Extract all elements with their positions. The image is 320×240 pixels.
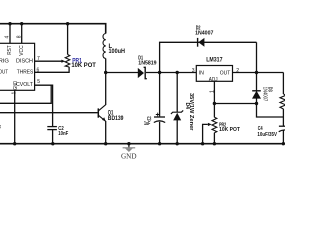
svg-text:1N5819: 1N5819 [138, 61, 156, 67]
wire PR2 bottom [213, 133, 215, 144]
zener diode D4 [173, 113, 181, 121]
transistor Q1 emitter arrow [102, 117, 106, 121]
ground symbol GND [123, 144, 136, 152]
potentiometer PR1 zigzag [65, 55, 70, 68]
svg-text:LM317: LM317 [206, 58, 223, 64]
svg-text:6: 6 [37, 68, 40, 74]
svg-text:100uH: 100uH [109, 49, 126, 55]
transistor Q1 BD139 [98, 105, 105, 122]
svg-text:1N4007: 1N4007 [262, 87, 268, 102]
wire C4 bottom lead [282, 130, 284, 144]
wire C2 bottom [52, 130, 54, 144]
svg-text:10K POT: 10K POT [219, 127, 240, 133]
svg-text:1: 1 [210, 90, 216, 93]
svg-text:BD139: BD139 [108, 116, 124, 122]
svg-text:7: 7 [37, 56, 40, 62]
wire D1 cathode to LM317 IN [146, 72, 196, 74]
svg-text:8: 8 [16, 35, 22, 38]
wire C4 top lead [282, 117, 284, 126]
inductor L coil [103, 34, 106, 59]
wire D2 output drop [256, 42, 258, 72]
wire LM317 OUT to right [233, 72, 284, 74]
potentiometer PR2 zigzag [212, 117, 217, 132]
svg-text:10nF: 10nF [58, 131, 68, 137]
svg-text:4: 4 [5, 36, 11, 39]
wire THRES pin6 to PR1 bottom [35, 67, 70, 72]
wire D3 anode down [256, 98, 258, 104]
svg-text:VCC: VCC [19, 45, 25, 56]
svg-text:THRES: THRES [17, 70, 34, 76]
diode D2 1N4007 [198, 38, 204, 47]
wire D3 top [256, 73, 258, 91]
wire C3 down [159, 73, 161, 117]
svg-text:10uF/35V: 10uF/35V [257, 132, 277, 138]
svg-text:1N4007: 1N4007 [195, 31, 213, 37]
wire D2 branch riser [160, 42, 257, 72]
resistor R at right edge [280, 94, 286, 109]
wire CVOLT to left net [0, 85, 51, 103]
wire ground rail [0, 143, 285, 145]
svg-text:CVOLT: CVOLT [16, 82, 33, 88]
svg-text:5: 5 [37, 79, 40, 85]
wire C3 bottom [159, 122, 161, 144]
capacitor C4 10uF/35V polarized [279, 126, 290, 132]
potentiometer PR2 wiper arrow [208, 123, 212, 126]
wire VCC pin8 [21, 24, 23, 44]
wire LM317 ADJ pin [213, 81, 215, 117]
wire CVOLT pin5 [35, 85, 53, 126]
wire Q1 emitter to ground rail [105, 121, 107, 144]
wire 555 OUT to Q1 base [0, 112, 98, 114]
capacitor C3 1uF polarized [154, 117, 165, 123]
svg-text:ADJ: ADJ [209, 77, 218, 83]
node junction dots [8, 22, 285, 145]
svg-text:2: 2 [236, 68, 239, 74]
wire D4 bottom [176, 120, 178, 144]
wire node to Q1 collector [105, 73, 107, 106]
svg-text:D4: D4 [184, 103, 190, 110]
svg-text:RST: RST [7, 45, 13, 55]
diode D3 1N4007 vertical [252, 91, 261, 99]
svg-text:GND: GND [121, 152, 137, 161]
wire DISCH pin7 [35, 60, 62, 62]
capacitor C2 10nF [47, 127, 57, 130]
wire ADJ net to C4 [257, 104, 284, 118]
svg-text:1uF: 1uF [144, 121, 150, 127]
svg-text:F: F [0, 126, 2, 132]
wire GND pin1 down [14, 90, 16, 143]
diode D1 1N5819 schottky [138, 68, 144, 78]
plus sign C3 [156, 113, 160, 117]
svg-text:35V/1W Zener: 35V/1W Zener [188, 93, 194, 131]
regulator U2 LM317 box [196, 66, 232, 82]
wire node to D1 anode [106, 72, 138, 74]
wire L to node [105, 59, 107, 73]
wire ADJ net horizontal [214, 103, 256, 105]
wire PR1 top [67, 24, 69, 55]
svg-text:IN: IN [199, 70, 205, 76]
svg-text:3: 3 [192, 68, 195, 74]
wire OUT corner down right edge [282, 73, 284, 95]
wire D4 top [176, 73, 178, 113]
wire resistor bottom to ADJ net [282, 109, 284, 117]
wire RST pin4 [9, 24, 11, 44]
wire PR2 wiper to ground [203, 124, 208, 143]
svg-text:OUT: OUT [220, 70, 231, 76]
wire top VCC rail [0, 24, 106, 34]
svg-text:10K POT: 10K POT [71, 63, 96, 69]
svg-text:OUT: OUT [0, 70, 8, 76]
potentiometer PR1 wiper arrow [61, 60, 65, 63]
svg-text:1: 1 [11, 92, 17, 95]
svg-text:DISCH: DISCH [16, 58, 33, 64]
svg-text:TRIG: TRIG [0, 58, 9, 64]
IC U1 555 timer box [0, 43, 35, 90]
